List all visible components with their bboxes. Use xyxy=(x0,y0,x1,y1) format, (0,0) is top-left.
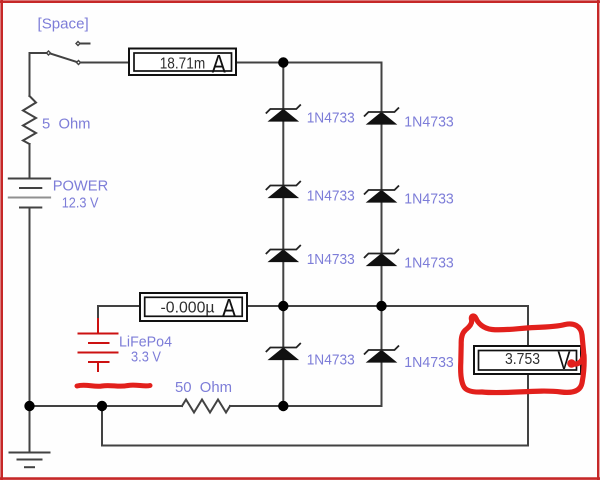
svg-text:1N4733: 1N4733 xyxy=(404,255,454,272)
svg-text:1N4733: 1N4733 xyxy=(404,114,454,131)
svg-text:5 Ohm: 5 Ohm xyxy=(42,116,91,133)
svg-text:3.3 V: 3.3 V xyxy=(131,349,161,366)
svg-text:A: A xyxy=(222,295,236,323)
svg-text:1N4733: 1N4733 xyxy=(307,109,355,126)
svg-text:1N4733: 1N4733 xyxy=(404,354,454,371)
svg-text:12.3 V: 12.3 V xyxy=(62,195,99,212)
svg-text:1N4733: 1N4733 xyxy=(404,190,454,207)
svg-text:1N4733: 1N4733 xyxy=(307,352,355,369)
svg-text:1N4733: 1N4733 xyxy=(307,187,355,204)
svg-text:1N4733: 1N4733 xyxy=(307,251,355,268)
svg-text:A: A xyxy=(212,50,226,78)
svg-text:[Space]: [Space] xyxy=(38,16,89,33)
svg-text:-0.000µ: -0.000µ xyxy=(161,299,215,316)
svg-text:POWER: POWER xyxy=(53,177,109,194)
svg-text:50 Ohm: 50 Ohm xyxy=(175,379,232,396)
svg-text:3.753: 3.753 xyxy=(505,351,540,368)
svg-text:18.71m: 18.71m xyxy=(160,55,206,72)
